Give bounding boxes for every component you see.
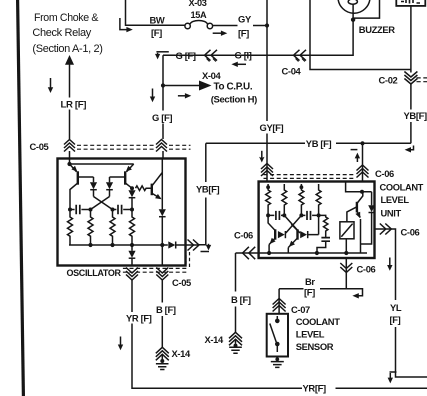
flow arrow down left of GY drop [261, 151, 263, 158]
svg-text:BW: BW [150, 14, 165, 25]
transistor Q6 emitter [357, 211, 360, 218]
ground sensor [275, 357, 279, 361]
svg-text:SENSOR: SENSOR [296, 341, 334, 352]
connector X-04 chevrons on G wire [205, 50, 211, 61]
svg-text:To C.P.U.: To C.P.U. [214, 82, 253, 93]
svg-text:OSCILLATOR: OSCILLATOR [67, 268, 122, 278]
flow arrow right under To CPU [178, 95, 187, 97]
sensor switch contacts [275, 319, 280, 324]
transistor Q5 base bar [296, 229, 298, 239]
svg-text:C-06: C-06 [357, 264, 376, 275]
wire YR bottom run [336, 387, 427, 389]
wire YB left drop to oscillator [205, 143, 207, 182]
connector C-02 chevrons [404, 72, 417, 78]
connector chevrons coolant left [243, 247, 249, 259]
wire G row horizontal [163, 54, 175, 56]
connector C-02 dashed lines [417, 78, 427, 82]
transistor Q6 collector [357, 192, 363, 204]
connector C-05 chevrons right [156, 140, 167, 145]
label COOLANT LEVEL UNIT [380, 182, 424, 218]
svg-text:[F]: [F] [151, 27, 162, 38]
node top rail [70, 163, 134, 165]
svg-text:[F]: [F] [238, 28, 249, 39]
svg-text:C-06: C-06 [401, 227, 420, 238]
svg-text:YL: YL [390, 302, 402, 313]
wire right column continues [410, 84, 412, 110]
diode D9 [371, 192, 373, 206]
resistor R8 [299, 184, 304, 215]
label COOLANT LEVEL SENSOR [296, 316, 341, 352]
wire B[F] oscillator drop [161, 280, 163, 303]
transistor Q2 collector [125, 183, 132, 188]
svg-text:From Choke &: From Choke & [34, 12, 98, 24]
wire Br from unit to sensor [279, 258, 346, 289]
connector chevron coolant bottom exit [340, 263, 352, 269]
wire sensor drop [278, 289, 280, 314]
transistor Q4 base bar [274, 229, 276, 239]
svg-text:COOLANT: COOLANT [380, 182, 424, 192]
svg-text:X-03: X-03 [189, 0, 207, 8]
transistor Q2 base bar [124, 171, 126, 184]
wire sensor to ground [276, 357, 278, 361]
wire G corner down [162, 55, 164, 110]
svg-text:X-14: X-14 [172, 348, 192, 359]
wire bus exit right [176, 244, 199, 246]
svg-text:C-04: C-04 [282, 66, 302, 77]
transistor Q3 base bar [151, 184, 153, 196]
flow arrow down YL [389, 258, 391, 267]
wire coil top to Q6 base [347, 207, 357, 222]
svg-text:C-05: C-05 [172, 277, 191, 288]
svg-text:X-04: X-04 [202, 70, 222, 81]
connector box top right [396, 0, 425, 6]
wire YR left drop [131, 280, 133, 312]
flow arrow left under G[I] [236, 63, 246, 65]
svg-text:C-06: C-06 [234, 230, 253, 241]
continuation hook arrow at YB right corner [409, 146, 414, 150]
transistor Q5 emitter [288, 238, 297, 248]
svg-text:G [F]: G [F] [152, 112, 172, 123]
wire D8 output [308, 215, 319, 234]
transistor Q6 base bar [356, 202, 358, 213]
svg-text:LEVEL: LEVEL [296, 328, 325, 339]
svg-text:B [F]: B [F] [231, 294, 251, 305]
oscillator box [58, 159, 186, 266]
wire LR down to C-05 [69, 110, 71, 140]
diode D1 [93, 177, 95, 182]
sensor switch lever [270, 324, 277, 343]
flow arrow down left of G wire [152, 89, 154, 98]
continuation hook arrow Br right [346, 289, 362, 296]
wire right column from connector box [410, 6, 412, 73]
resistor R5 base of Q3 [136, 186, 152, 191]
wire Q1 base [78, 176, 94, 178]
buzzer circle [338, 0, 370, 13]
arrow To C.P.U. [163, 85, 200, 87]
transistor Q5 collector stub [291, 224, 297, 230]
ground X-14 left [161, 354, 163, 362]
diode D8 [300, 231, 307, 238]
transistor Q3 emitter [153, 194, 161, 199]
svg-text:BUZZER: BUZZER [359, 24, 395, 35]
continuation hook arrow YL corner [390, 371, 397, 373]
connector C-06 chevrons right entry [357, 165, 369, 171]
connector chevrons oscillator output [188, 240, 194, 251]
node collector rail [346, 182, 372, 192]
connector chevrons below box left [126, 268, 138, 274]
connector C-05 chevrons left [64, 140, 75, 145]
svg-text:GY: GY [238, 13, 252, 24]
svg-text:GY[F]: GY[F] [260, 122, 284, 133]
resistor R7 [282, 184, 287, 215]
label Br [F] [304, 276, 321, 298]
diode D6 to bottom exit [131, 245, 133, 251]
wire fuse to GY junction [213, 25, 267, 27]
svg-text:(Section H): (Section H) [211, 94, 257, 105]
junction dot fuse line / GY vertical [265, 23, 269, 27]
flow arrow down (left of LR wire) [50, 78, 52, 88]
sensor coil RT [340, 222, 354, 239]
svg-text:[F]: [F] [304, 286, 315, 297]
svg-text:Br: Br [305, 276, 315, 287]
diode D4 [161, 200, 163, 210]
capacitor C4 [301, 214, 318, 216]
svg-text:YB[F]: YB[F] [404, 110, 427, 121]
capacitor C3 [268, 214, 284, 216]
junction dot buzzer stem [351, 18, 355, 22]
wire GY vertical from top down to C-06 unit [266, 0, 268, 121]
svg-text:COOLANT: COOLANT [296, 316, 341, 327]
capacitor C2 [113, 209, 133, 211]
label GY [F] [238, 13, 254, 38]
junction dot G branch [161, 83, 165, 87]
capacitor C1 [70, 209, 91, 211]
transistor Q1 collector [70, 183, 78, 210]
page border left heavy rule [18, 0, 24, 396]
svg-text:C-06: C-06 [375, 168, 394, 179]
transistor Q3 collector [153, 173, 163, 186]
ground X-14 right [234, 344, 238, 348]
node bottom bus [69, 244, 168, 246]
connector marker tick+arrow at G corner [156, 51, 168, 53]
connector C-05 bottom dashed lines [123, 268, 187, 272]
svg-text:YB [F]: YB [F] [306, 138, 332, 149]
wire coil bottom [345, 239, 347, 253]
transistor Q4 emitter [269, 238, 275, 245]
continuation hook arrow at BW corner [120, 18, 128, 30]
wire LR into box [69, 151, 71, 164]
continuation hook at oscillator YB corner [201, 251, 210, 253]
resistor R10 [319, 215, 328, 237]
junction dot YB / C-06 right drop [360, 141, 364, 145]
resistor R9 [316, 184, 321, 215]
wire cross-couple A [284, 215, 300, 233]
resistor R3 [110, 210, 115, 246]
wire YL lower [396, 327, 427, 377]
svg-text:(Section A-1, 2): (Section A-1, 2) [32, 43, 102, 55]
svg-text:C-02: C-02 [379, 74, 398, 85]
svg-text:B [F]: B [F] [156, 304, 176, 315]
wire coolant right exit [375, 229, 396, 300]
wire YB horizontal [206, 142, 305, 144]
fuse X-03 15A [185, 23, 190, 28]
svg-text:LR [F]: LR [F] [61, 100, 87, 111]
resistor R1 [68, 210, 73, 246]
wire bus exit left [236, 252, 259, 254]
connector chevrons below box right [156, 268, 168, 274]
wire from top into BW line [126, 0, 185, 25]
capacitor C5 [321, 238, 330, 242]
wire G feed vertical inside box [161, 159, 163, 200]
connector C-06 chevrons left entry [261, 164, 273, 170]
connector marker tick+uparrow right drop [351, 149, 358, 151]
svg-text:LEVEL: LEVEL [381, 195, 410, 205]
connector chevrons coolant right exit [380, 224, 386, 235]
svg-text:UNIT: UNIT [381, 209, 402, 219]
svg-text:Check Relay: Check Relay [32, 27, 91, 39]
arrow up to choke relay [69, 64, 71, 98]
diode D7 [278, 231, 285, 238]
svg-text:YR[F]: YR[F] [303, 382, 326, 393]
svg-text:YB[F]: YB[F] [196, 183, 219, 194]
ground X-14 left chevrons [156, 347, 169, 353]
flow arrow down YR [120, 337, 122, 346]
buzzer right terminal wire [353, 0, 379, 18]
wire YB right drop to coolant unit [362, 143, 364, 181]
svg-text:C-07: C-07 [291, 304, 310, 315]
wire G into box [162, 151, 164, 159]
wire cross-couple D2 to node C1 [91, 197, 110, 210]
label YL [F] [390, 302, 402, 325]
transistor Q4 collector [268, 215, 275, 230]
buzzer inner coil [348, 0, 357, 4]
diode D3 [131, 188, 133, 190]
flow arrow right under fuse wire [213, 32, 223, 34]
resistor R6 [266, 184, 271, 215]
connector C-04 chevrons on G wire [294, 50, 300, 61]
diode D5 output on bus [168, 241, 175, 248]
ground X-14 right chevrons [229, 332, 242, 338]
svg-text:X-14: X-14 [205, 334, 225, 345]
note: From Choke & Check Relay (Section A-1,2) [32, 12, 102, 55]
transistor Q2 emitter [127, 164, 134, 172]
wire Q2 base [110, 176, 126, 178]
connector C-05 dashed lines [77, 145, 191, 149]
coolant level unit box [259, 182, 375, 259]
connector C-06 dashed lines [264, 175, 355, 179]
transistor Q1 emitter [70, 164, 77, 172]
buzzer stem wire [163, 4, 353, 55]
diode D2 [109, 177, 111, 182]
sensor C-07 box [267, 314, 288, 357]
svg-text:15A: 15A [191, 10, 208, 20]
connector chevrons C-07 [273, 299, 286, 305]
label BW [F] [150, 14, 165, 37]
svg-text:YR [F]: YR [F] [126, 312, 152, 323]
svg-text:[F]: [F] [390, 314, 401, 325]
wire cross-couple B [286, 215, 302, 233]
resistor R4 [130, 210, 135, 246]
svg-text:C-05: C-05 [30, 141, 49, 152]
transistor Q1 base bar [77, 171, 79, 184]
wire branch x=310 to right column [310, 0, 411, 70]
resistor R2 [88, 210, 93, 246]
wire B[F] left drop [235, 253, 237, 292]
wire cross-couple D1 to node C2 [94, 197, 113, 210]
wire G/B exit bottom [161, 245, 163, 266]
node coolant bottom bus [259, 252, 367, 254]
